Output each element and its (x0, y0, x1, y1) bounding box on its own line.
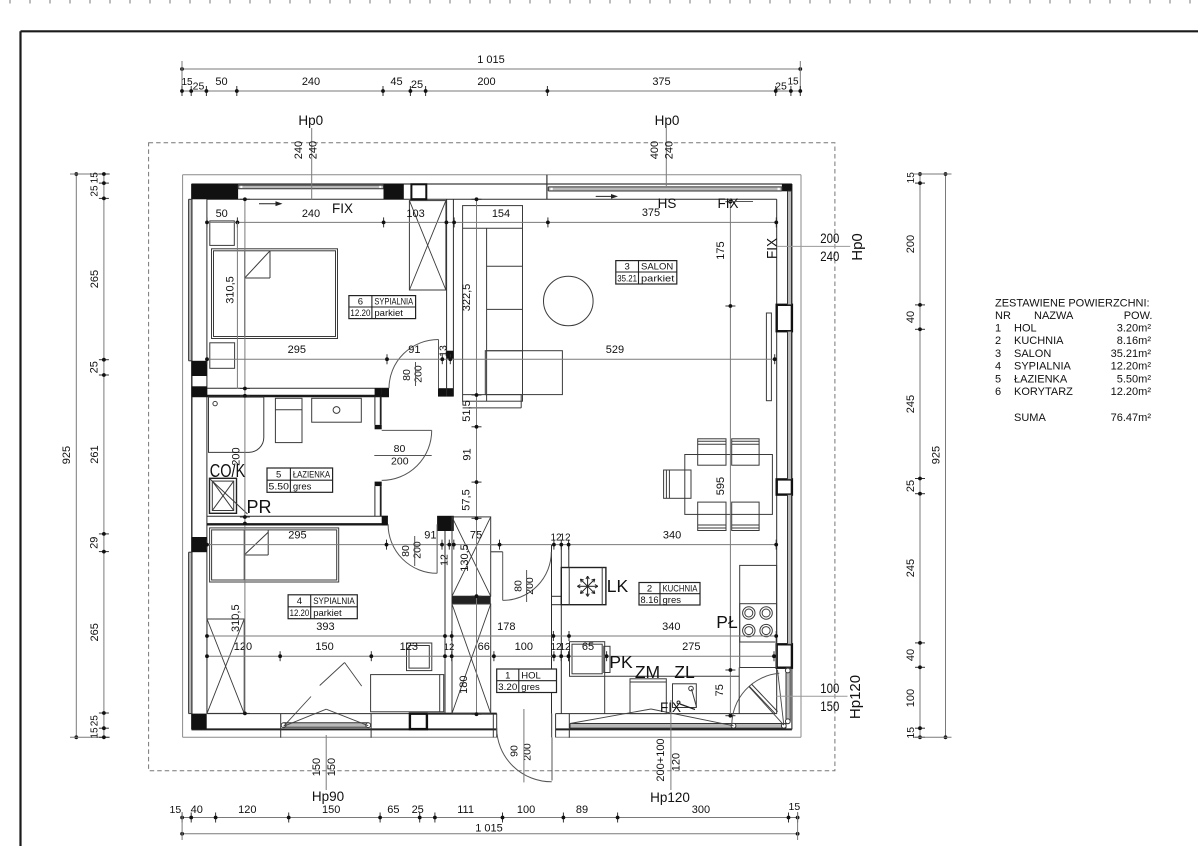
svg-text:LK: LK (607, 576, 629, 596)
svg-text:925: 925 (931, 446, 943, 464)
fridge LK (561, 568, 606, 605)
svg-text:65: 65 (387, 804, 399, 816)
wardrobe bedroom4 (207, 619, 244, 713)
wall pier top-left corner (192, 184, 239, 199)
svg-text:25: 25 (412, 804, 424, 816)
wall pier right 2 (777, 479, 792, 494)
svg-text:HS: HS (658, 196, 677, 211)
svg-text:12.20: 12.20 (290, 608, 310, 619)
svg-text:gres: gres (521, 682, 540, 693)
svg-text:ZESTAWIENE POWIERZCHNI:: ZESTAWIENE POWIERZCHNI: (995, 298, 1150, 310)
svg-text:3: 3 (625, 262, 630, 273)
entrance door jambs (492, 714, 494, 738)
svg-text:295: 295 (288, 530, 306, 542)
svg-text:12: 12 (439, 554, 451, 566)
kitchen corner fan lines (749, 687, 784, 725)
dim column left segments (89, 172, 109, 739)
svg-text:2: 2 (647, 584, 652, 595)
svg-text:8.16m²: 8.16m² (1117, 335, 1152, 347)
exterior wall structural outline (192, 183, 792, 185)
wall bathroom/bedroom4 (207, 515, 388, 517)
svg-text:SALON: SALON (1014, 348, 1051, 360)
svg-text:75: 75 (714, 684, 726, 696)
dim row top segments (180, 76, 802, 96)
door entrance (90/200) (551, 737, 553, 780)
svg-text:57,5: 57,5 (461, 489, 473, 510)
door bedroom4 (80/200) (436, 524, 438, 573)
svg-text:12.20m²: 12.20m² (1111, 361, 1152, 373)
svg-text:ZM: ZM (635, 662, 660, 682)
door bathroom (80/200) (382, 429, 432, 431)
dim line salon vertical 322,5 (458, 197, 482, 716)
wall hol/kitchen (551, 545, 553, 714)
svg-text:HOL: HOL (521, 670, 541, 681)
svg-text:CO/K: CO/K (210, 461, 246, 481)
nightstand 2 bedroom6 (210, 343, 235, 369)
room box 2 KUCHNIA (639, 583, 700, 606)
svg-text:SYPIALNIA: SYPIALNIA (1014, 361, 1072, 373)
dining table (685, 455, 773, 515)
wall pier right 3 (777, 644, 792, 667)
svg-text:240: 240 (308, 141, 320, 159)
svg-text:15: 15 (181, 77, 193, 88)
svg-text:12: 12 (559, 642, 571, 653)
svg-text:80: 80 (401, 369, 413, 381)
svg-text:5: 5 (995, 373, 1001, 385)
svg-text:PK: PK (609, 652, 633, 672)
kitchen corner cabinet diagonal (749, 686, 775, 714)
svg-text:200: 200 (477, 76, 495, 88)
svg-text:PR: PR (246, 497, 271, 517)
svg-text:SALON: SALON (641, 262, 673, 273)
window HS 375 top (glazing) (548, 187, 782, 191)
svg-text:310,5: 310,5 (225, 276, 237, 304)
svg-text:SUMA: SUMA (1014, 412, 1046, 424)
svg-text:15: 15 (789, 801, 801, 813)
svg-text:ŁAZIENKA: ŁAZIENKA (293, 470, 331, 481)
svg-text:66: 66 (478, 641, 490, 653)
svg-text:245: 245 (905, 559, 917, 577)
svg-text:15: 15 (170, 804, 182, 816)
room box 4 SYPIALNIA (288, 595, 357, 619)
window right wall FIX 1 (glazing) (788, 191, 792, 305)
dim line bedroom6 310,5 (236, 222, 238, 388)
svg-text:65: 65 (582, 641, 594, 653)
fridge snowflake symbol (577, 576, 597, 596)
svg-text:100: 100 (515, 641, 533, 653)
svg-text:gres: gres (293, 482, 312, 493)
svg-text:Hp90: Hp90 (312, 789, 344, 804)
room box 6 SYPIALNIA (349, 296, 416, 319)
svg-text:340: 340 (663, 530, 681, 542)
wall corridor/wardrobe west (444, 531, 446, 714)
svg-text:120: 120 (234, 641, 252, 653)
svg-text:1: 1 (995, 323, 1001, 335)
svg-text:91: 91 (408, 344, 420, 356)
exterior wall inner face (207, 198, 777, 200)
svg-text:2: 2 (995, 335, 1001, 347)
svg-text:NR: NR (995, 310, 1011, 322)
door corridor-hol (80/200) (502, 552, 504, 601)
door bedroom6 (80/200) (438, 340, 440, 389)
dining chair top1 (698, 439, 726, 465)
svg-text:240: 240 (302, 208, 320, 220)
wall bottom inner face emphasis (427, 713, 497, 715)
dim row bottom segments (170, 801, 801, 823)
radiator right wall (766, 313, 771, 401)
svg-text:25: 25 (89, 361, 101, 373)
svg-text:12.20m²: 12.20m² (1111, 386, 1152, 398)
svg-text:265: 265 (89, 623, 101, 641)
svg-text:123: 123 (400, 641, 418, 653)
svg-text:200: 200 (522, 743, 534, 761)
svg-text:15: 15 (90, 727, 101, 739)
svg-text:240: 240 (664, 141, 676, 159)
svg-text:200+100: 200+100 (655, 738, 667, 781)
svg-text:375: 375 (652, 76, 670, 88)
svg-text:91: 91 (462, 448, 474, 460)
svg-text:parkiet: parkiet (313, 608, 342, 619)
svg-text:35.21m²: 35.21m² (1111, 348, 1152, 360)
wall pier left (between window1/2) (192, 361, 207, 376)
svg-text:25: 25 (905, 480, 917, 492)
chair bedroom4 (407, 643, 432, 671)
sofa (463, 206, 523, 402)
svg-text:Hp0: Hp0 (655, 113, 680, 128)
dim total 925 left (61, 174, 76, 737)
wall pier bottom (white column box) (410, 714, 427, 729)
svg-text:FIX: FIX (332, 201, 353, 216)
svg-text:Hp0: Hp0 (298, 113, 323, 128)
svg-text:240: 240 (820, 248, 839, 264)
svg-text:35.21: 35.21 (617, 273, 637, 284)
svg-text:76.47m²: 76.47m² (1111, 412, 1152, 424)
svg-text:12.20: 12.20 (350, 308, 370, 319)
stove burners (740, 604, 777, 642)
window right wall 2 (glazing) (788, 331, 792, 479)
svg-text:180: 180 (458, 676, 470, 694)
svg-text:1 015: 1 015 (475, 823, 503, 835)
svg-text:295: 295 (288, 344, 306, 356)
svg-text:8.16: 8.16 (641, 595, 659, 606)
svg-text:91: 91 (424, 530, 436, 542)
svg-text:529: 529 (606, 344, 624, 356)
svg-text:200: 200 (820, 230, 839, 246)
page ruler ticks (10, 0, 1190, 4)
svg-text:4: 4 (995, 361, 1001, 373)
svg-text:178: 178 (497, 621, 515, 633)
svg-text:111: 111 (457, 804, 474, 816)
svg-text:103: 103 (406, 208, 424, 220)
svg-text:6: 6 (358, 297, 363, 308)
shower (209, 397, 264, 452)
svg-text:120: 120 (238, 804, 256, 816)
svg-text:50: 50 (216, 208, 228, 220)
svg-text:200: 200 (524, 577, 536, 595)
svg-text:245: 245 (905, 395, 917, 413)
wall cap right of bedroom6 door (438, 388, 454, 396)
svg-text:40: 40 (905, 649, 917, 661)
svg-text:12: 12 (559, 533, 571, 544)
svg-text:25: 25 (90, 715, 101, 727)
area summary table (995, 298, 1152, 424)
bed bedroom6 (212, 249, 338, 339)
nightstand 1 bedroom6 (210, 221, 235, 246)
svg-text:29: 29 (89, 537, 101, 549)
svg-text:925: 925 (61, 446, 73, 464)
wall pier bottom-left corner (192, 714, 207, 730)
dim row interior top (205, 207, 778, 227)
wall cap left of bedroom4 door (382, 516, 388, 526)
svg-text:90: 90 (509, 745, 521, 757)
svg-text:3: 3 (995, 348, 1001, 360)
dining chair bottom2 (732, 502, 759, 530)
dim total 1015 top (182, 54, 800, 69)
corridor wardrobe upper (75) (452, 517, 491, 596)
svg-text:80: 80 (394, 443, 406, 455)
svg-text:25: 25 (775, 81, 787, 93)
dim row interior bottom (205, 641, 776, 661)
kitchen right counter (740, 565, 777, 667)
window bottom bedroom4 150 (glazing) (280, 714, 282, 738)
wall pier right 1 (777, 305, 792, 331)
svg-text:ZL: ZL (674, 662, 695, 682)
dining chair left (664, 470, 691, 498)
svg-text:240: 240 (293, 141, 305, 159)
svg-text:150: 150 (315, 641, 333, 653)
leader 100/150 Hp120 right (777, 695, 848, 697)
svg-text:595: 595 (715, 477, 727, 495)
svg-text:300: 300 (692, 804, 710, 816)
dim line salon/kitchen vertical 175/595/75 (714, 200, 735, 718)
dim row 393/178/340 (205, 621, 778, 641)
svg-text:25: 25 (193, 81, 205, 93)
dining chair bottom1 (698, 502, 726, 530)
dim line bath/bedroom4 vertical (230, 197, 250, 715)
svg-text:ŁAZIENKA: ŁAZIENKA (1014, 373, 1068, 385)
corridor wardrobe divider (452, 596, 491, 604)
svg-text:HOL: HOL (1014, 323, 1037, 335)
dim row bedroom6/salon (205, 344, 777, 364)
window turn symbol bedroom4 (284, 709, 327, 726)
svg-text:275: 275 (682, 641, 700, 653)
svg-text:40: 40 (905, 311, 917, 323)
svg-text:5.50m²: 5.50m² (1117, 373, 1152, 385)
dim total 925 right (931, 174, 946, 737)
kitchen cabinet PK (570, 642, 605, 677)
wall bedroom6/salon (446, 199, 448, 396)
svg-text:393: 393 (316, 621, 334, 633)
svg-text:SYPIALNIA: SYPIALNIA (374, 297, 413, 308)
wall pier top-right corner (782, 184, 792, 191)
kitchen bottom counter (605, 675, 740, 677)
window tilt symbol bedroom4 (320, 663, 345, 686)
wall pier top (45) (384, 184, 404, 199)
svg-text:3.20m²: 3.20m² (1117, 323, 1152, 335)
svg-text:340: 340 (662, 621, 680, 633)
svg-text:Hp120: Hp120 (847, 675, 864, 719)
svg-text:1 015: 1 015 (477, 54, 505, 66)
svg-text:POW.: POW. (1124, 310, 1153, 322)
dining chair top2 (732, 439, 759, 465)
sink ZL (673, 684, 697, 708)
svg-text:Hp0: Hp0 (849, 233, 866, 261)
svg-text:parkiet: parkiet (374, 308, 403, 319)
dim row bedroom4/kitchen (205, 530, 778, 566)
svg-text:Hp120: Hp120 (650, 790, 690, 805)
room box 1 HOL (497, 669, 557, 693)
svg-text:120: 120 (671, 753, 683, 771)
svg-text:100: 100 (905, 689, 917, 707)
svg-text:6: 6 (995, 386, 1001, 398)
svg-text:NAZWA: NAZWA (1034, 310, 1074, 322)
bed bedroom4 (210, 528, 339, 582)
svg-text:FIX: FIX (717, 196, 738, 211)
svg-text:200: 200 (391, 456, 409, 468)
roof outline dashed (149, 143, 835, 771)
svg-text:51,5: 51,5 (461, 400, 473, 421)
svg-text:50: 50 (215, 76, 227, 88)
window left wall bedroom4 (glazing) (189, 552, 192, 713)
window right wall 3 (glazing) (788, 495, 792, 645)
svg-text:FIX: FIX (765, 238, 780, 259)
svg-text:261: 261 (89, 445, 101, 463)
window right wall corner (glazing) (786, 668, 790, 721)
room box 5 LAZIENKA (267, 468, 333, 492)
svg-text:12: 12 (444, 642, 455, 653)
washbasin (312, 398, 362, 422)
svg-text:40: 40 (191, 804, 203, 816)
svg-text:25: 25 (90, 185, 101, 197)
svg-text:4: 4 (297, 596, 302, 607)
svg-text:80: 80 (400, 545, 412, 557)
svg-text:3.20: 3.20 (498, 682, 517, 693)
svg-text:100: 100 (517, 804, 535, 816)
room box 3 SALON (616, 261, 677, 284)
svg-text:parkiet: parkiet (641, 273, 675, 284)
chimney box in top wall (411, 184, 426, 199)
svg-text:15: 15 (90, 172, 101, 184)
svg-text:150: 150 (322, 804, 340, 816)
window FIX 240 top (glazing) (238, 185, 383, 189)
dim total 1015 bottom (182, 823, 798, 835)
boiler CO/K (210, 478, 237, 513)
svg-text:5: 5 (276, 470, 281, 481)
svg-text:200: 200 (412, 541, 424, 559)
wall bathroom east (374, 396, 376, 425)
svg-text:265: 265 (89, 270, 101, 288)
svg-text:310,5: 310,5 (230, 604, 242, 632)
svg-text:400: 400 (649, 141, 661, 159)
svg-text:gres: gres (663, 595, 682, 606)
coffee table round (544, 276, 594, 326)
svg-text:200: 200 (413, 365, 425, 383)
svg-text:SYPIALNIA: SYPIALNIA (313, 596, 355, 607)
svg-text:154: 154 (492, 208, 510, 220)
svg-text:130,5: 130,5 (459, 544, 471, 572)
svg-text:KORYTARZ: KORYTARZ (1014, 386, 1073, 398)
desk bedroom4 (371, 675, 444, 712)
wall cap right of bedroom4 door + corridor wall top (437, 516, 454, 531)
svg-text:13: 13 (438, 345, 450, 357)
svg-text:175: 175 (715, 241, 727, 259)
svg-text:322,5: 322,5 (461, 284, 473, 312)
svg-text:100: 100 (820, 680, 839, 696)
wardrobe bedroom6 (409, 201, 446, 290)
leader 200/240 Hp0 right (777, 245, 850, 247)
svg-text:150: 150 (311, 758, 323, 776)
window jamb line top (546, 175, 548, 200)
svg-text:KUCHNIA: KUCHNIA (663, 584, 699, 595)
svg-text:150: 150 (820, 698, 839, 714)
svg-text:FIX: FIX (660, 700, 681, 715)
window left wall bedroom6 (glazing) (189, 199, 192, 360)
washing machine (275, 398, 302, 442)
kitchen corner cabinet arc (732, 673, 780, 725)
svg-text:150: 150 (326, 758, 338, 776)
exterior wall outer face (183, 174, 801, 176)
svg-text:5.50: 5.50 (269, 482, 289, 493)
svg-text:45: 45 (390, 76, 402, 88)
svg-text:25: 25 (411, 79, 423, 91)
window bottom kitchen FIX (glazing) (568, 714, 570, 738)
svg-text:PŁ: PŁ (716, 612, 738, 632)
wall bedroom6/bathroom (207, 387, 389, 389)
wall pier left (29) (192, 537, 207, 552)
svg-text:80: 80 (513, 580, 525, 592)
svg-text:1: 1 (505, 670, 510, 681)
svg-text:KUCHNIA: KUCHNIA (1014, 335, 1064, 347)
wall corridor/hol stub (491, 544, 503, 546)
svg-text:240: 240 (302, 76, 320, 88)
dim column right segments (905, 172, 925, 739)
svg-text:89: 89 (576, 804, 588, 816)
corridor wardrobe lower (180) (452, 604, 491, 713)
dishwasher ZM (630, 679, 666, 714)
svg-text:200: 200 (905, 235, 917, 253)
svg-text:15: 15 (787, 77, 799, 88)
chaise/tv bench (485, 351, 562, 395)
